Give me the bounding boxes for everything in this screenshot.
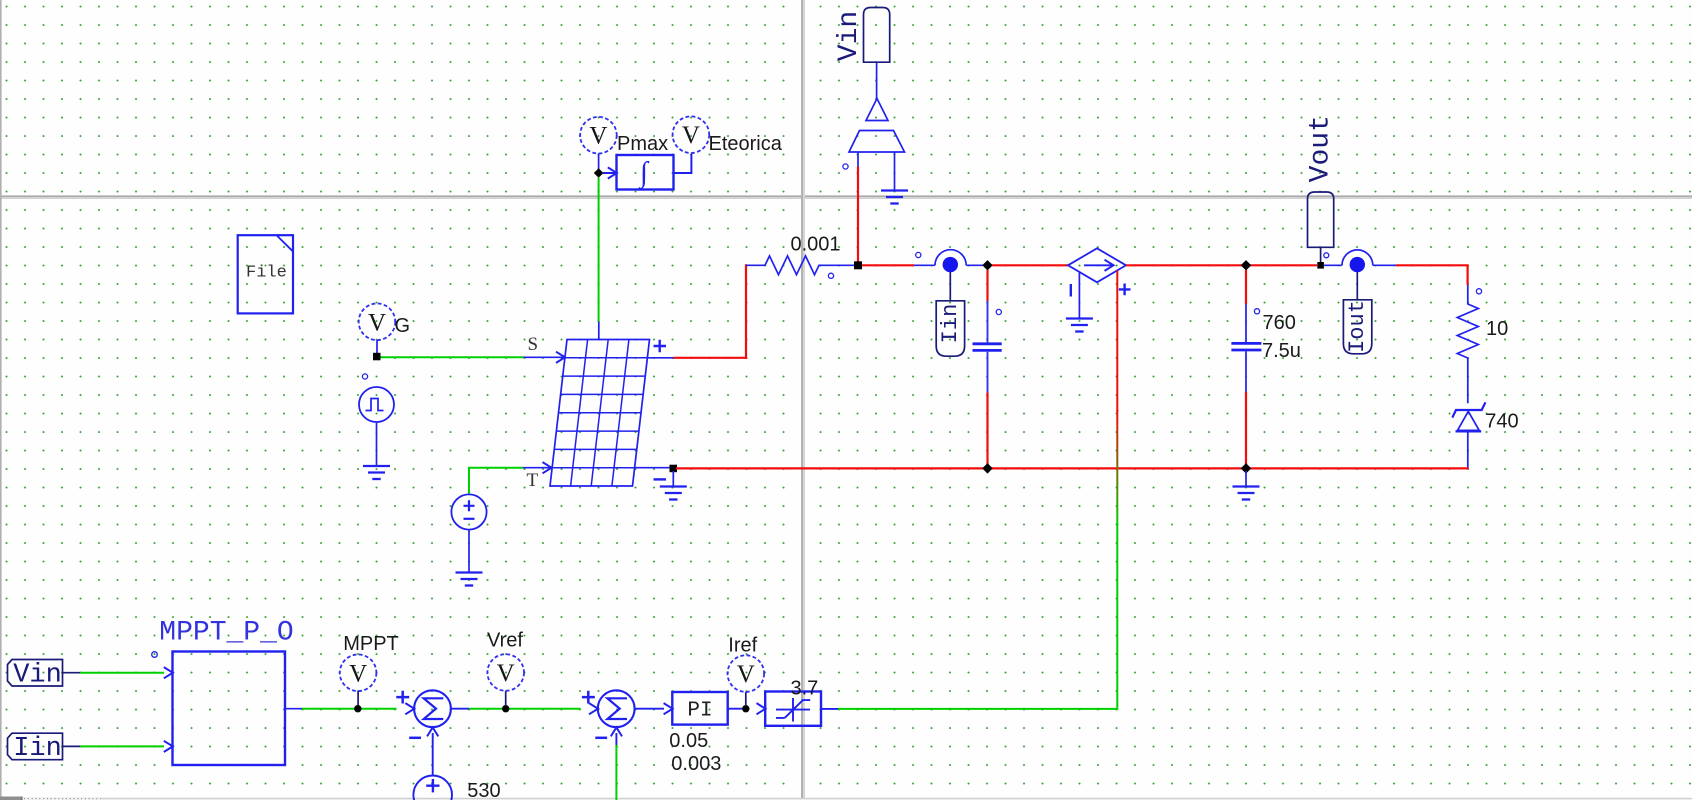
wire limiter output [821,708,838,710]
resistor R2 10 vertical [1457,285,1478,403]
wire Vref probe to node [505,691,507,706]
wire step source to ground [376,422,378,466]
node marker circle before Iin [916,252,921,257]
wire green limiter up to source [1116,523,1118,708]
pin stub Iin right [966,264,983,266]
wire green G to panel S [381,356,524,358]
svg-text:0.003: 0.003 [671,753,721,775]
svg-text:740: 740 [1485,411,1518,433]
wire green block to summer [302,708,397,710]
summer S1 circle [414,690,451,727]
svg-text:7.5u: 7.5u [1262,340,1301,362]
probe tag body Iin [936,301,964,356]
wire gradient red-green vertical [1116,410,1118,525]
wire red diamond source down [1116,271,1118,413]
current source plus mark [1119,284,1131,296]
svg-text:10: 10 [1486,318,1508,340]
wire red top rail mid [1126,264,1317,266]
pin stub panel minus output [635,467,670,469]
svg-text:File: File [246,264,287,283]
wire summer S1 output [451,708,469,710]
node dot Vref [502,705,509,712]
ammeter Iin stem [949,272,951,301]
wire ground stem panel [672,471,674,487]
solar panel grid columns [571,340,629,487]
voltmeter probe Pmax [580,117,617,154]
ammeter Iout stem [1356,272,1358,300]
summer S1 minus mark [409,737,421,740]
probe body Vin [864,8,890,63]
summer S1 sigma glyph [424,698,444,719]
zener diode D1 triangle [1458,411,1480,430]
current source left leg [1078,273,1080,319]
node marker circle near step source [362,374,367,379]
wire PI output [728,708,742,710]
svg-text:Eteorica: Eteorica [709,133,783,155]
arrow into limiter [757,703,766,714]
svg-text:MPPT_P_O: MPPT_P_O [159,618,293,649]
solar panel grid rows [552,358,647,468]
summer S2 sigma glyph [607,698,627,719]
ground G2 under step source [363,466,390,479]
arrow into panel S [556,352,565,363]
wire probe Vin stem [876,62,878,98]
PI controller block [672,692,727,725]
bottom scrollbar dotted track [23,797,103,800]
wire node to integrator [603,172,617,174]
wire green feedback below S2 [615,745,617,800]
pin stub panel S input [524,356,566,358]
wire red top rail right [1396,264,1469,266]
svg-text:PI: PI [687,700,712,723]
node junction diamond C2 top [1241,260,1251,270]
svg-text:Vin: Vin [13,661,62,691]
wire green S1 to S2 [469,708,581,710]
arrow into summer S1 [405,703,414,714]
voltmeter probe Iref [728,655,765,692]
voltage sensor U-Vin triangle [866,99,888,121]
svg-text:Iin: Iin [13,734,62,764]
pin stub sensor left leg [857,152,859,167]
wire feedback below S2 blue stub [615,733,617,745]
arrow into block Vin [164,667,173,678]
wire Vout probe stem [1320,247,1322,262]
svg-text:Iout: Iout [1345,300,1370,353]
pin stub panel T input [523,467,552,469]
node junction diamond C2 bottom [1241,463,1251,473]
pin stub C2 top [1245,304,1247,342]
pin stub Vin tag [63,672,81,674]
svg-text:Pmax: Pmax [617,133,668,155]
ground G6 under C2 [1233,487,1260,500]
pin stub Iin tag [63,745,81,747]
constant source 530 plus [426,779,439,792]
input port tag Vin [8,660,63,687]
pin stub panel top [598,322,600,340]
voltmeter probe G [359,304,396,341]
ammeter Iin arch [935,250,966,266]
vertical axis gray line [801,0,803,800]
zener diode D1 bar [1452,402,1485,417]
node marker circle at C2 [1254,309,1259,314]
svg-text:S: S [528,334,539,355]
step source waveform glyph [366,399,384,411]
integrator block U2 [617,155,674,190]
svg-text:0.001: 0.001 [791,234,841,256]
wire 530 source to summer S1 [432,733,434,776]
limiter symbol [776,698,810,722]
pin stub MPPT block output [285,708,302,710]
node marker circle at C1 [996,309,1001,314]
svg-text:Vout: Vout [1305,115,1336,182]
DC source VT circle [451,494,486,529]
voltage sensor U-Vin trapezoid [849,131,905,153]
ground G1 under Vin sensor [881,191,908,204]
wire ground stem C2 [1245,471,1247,487]
left window edge [0,0,2,800]
resistor R1 0.001 [746,256,854,275]
wire Pmax probe to node [598,154,600,171]
arrow up into summer S2 [611,727,622,736]
ground G3 under DC source [456,573,483,586]
pin stub C2 bottom [1245,351,1247,392]
ground G5 under current source [1066,319,1093,332]
node square R1 right [854,261,862,269]
svg-text:Iref: Iref [728,635,757,657]
solar panel PV1 outline [550,340,650,487]
node marker circle at MPPT block [152,652,158,658]
voltmeter probe Eteorica [673,116,710,153]
wire summer S2 output [635,708,664,710]
controlled current source diamond [1068,248,1126,282]
node marker circle near sensor [843,164,848,169]
limiter block [765,692,821,726]
zener diode D1 base [1456,430,1482,432]
probe body Vout [1308,192,1334,247]
svg-text:0.05: 0.05 [669,730,708,752]
voltmeter probe MPPT [340,655,377,692]
panel plus terminal mark [654,340,667,353]
capacitor C1 plates [973,344,1002,351]
node marker circle at Vout [1324,253,1329,258]
summer S2 circle [598,690,635,727]
svg-text:760: 760 [1263,312,1296,334]
voltmeter probe Vref [487,654,524,691]
subcircuit block MPPT_P_O [173,652,286,766]
probe tag body Iout [1343,300,1371,354]
node junction diamond at Pmax [594,168,604,178]
svg-text:G: G [395,315,411,337]
arrow up into summer S1 [427,727,438,736]
capacitor C2 plates [1231,343,1261,350]
wire green Vin tag to block [80,672,164,674]
pin stub panel plus output [647,357,673,359]
node square Vout [1317,262,1324,269]
arrow into block Iin [164,741,173,752]
arrow into PI block [664,703,673,714]
node square at G source [373,353,381,361]
wire red C1 bottom [986,393,988,469]
file icon fold corner [277,236,293,252]
wire green limiter to current source [838,708,1118,710]
file source icon [238,235,293,313]
svg-text:T: T [527,470,539,491]
current source arrow [1084,264,1112,266]
wire red C2 bottom [1245,392,1247,468]
wire green DC source to panel T [469,468,523,495]
summer S1 plus mark [396,691,409,704]
wire G probe to node [376,340,378,354]
pin stub C1 bottom [987,352,989,393]
ammeter Iin ball [943,257,958,272]
wire red C1 top [986,270,988,301]
wire Iref probe to node [745,692,747,706]
input port tag Iin [8,733,63,760]
svg-text:Vref: Vref [487,630,523,652]
pin stub Iout right [1373,264,1396,266]
summer S2 minus mark [595,737,607,740]
pin stub Iout left [1324,264,1342,266]
arrow into integrator [608,167,617,178]
pin stub C1 top [987,301,989,342]
svg-text:Vin: Vin [834,11,865,61]
arrow into panel T [543,462,552,473]
node marker circle near R1 [828,273,833,278]
svg-text:3.7: 3.7 [791,678,819,700]
ammeter Iout arch [1342,250,1373,265]
node marker circle at R2 [1476,289,1481,294]
svg-text:Iin: Iin [938,304,963,344]
node junction diamond C1 bottom [982,463,992,473]
bottom scrollbar track line [102,798,1692,799]
constant source 530 circle [413,776,452,800]
horizontal axis gray line [0,195,1692,197]
pin stub zener bottom [1467,432,1469,469]
step source VG [359,387,394,422]
pin stub Iin left [914,264,935,266]
bottom scrollbar thumb edge [21,797,23,800]
node square panel minus [670,465,678,473]
DC source plus [464,500,475,511]
wire red panel output horizontal [674,357,748,359]
DC source minus [464,518,475,520]
pin stub sensor right leg [894,152,896,191]
ground G4 at panel output [660,487,687,500]
wire red up to resistor R1 [745,264,747,359]
arrow into summer S2 [589,703,598,714]
wire DC source to ground [468,530,470,572]
wire red down to R2 [1466,265,1468,285]
wire red node to Iin sensor [862,264,914,266]
wire green Pmax node down to panel [598,178,600,322]
wire red sensor to node [857,167,859,263]
node dot Iref [742,705,749,712]
wire red C2 top [1245,270,1247,304]
svg-text:530: 530 [467,780,500,800]
wire red to diamond source [992,264,1068,266]
node junction diamond Iin/C1 [982,260,992,270]
bottom scrollbar corner [0,797,21,800]
node dot MPPT [354,705,361,712]
svg-text:MPPT: MPPT [343,633,399,655]
wire MPPT probe to node [357,691,359,706]
wire red bottom rail [676,467,1469,469]
wire green Iin tag to block [80,745,164,747]
summer S2 plus mark [582,691,595,704]
ammeter Iout ball [1350,257,1365,272]
panel minus terminal mark [654,478,667,480]
wire integrator to Eteorica probe [674,154,692,173]
current source minus tick [1070,284,1072,297]
